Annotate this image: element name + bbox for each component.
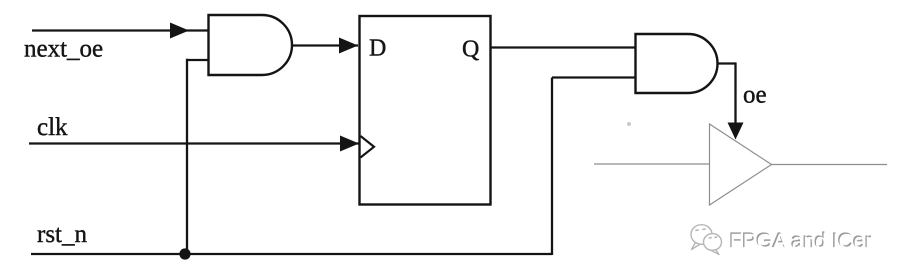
junction dot on rst_n	[179, 248, 190, 259]
svg-text:oe: oe	[743, 82, 767, 109]
wire tri-state buffer input	[594, 163, 709, 165]
scan speck	[627, 122, 631, 126]
wire rst_n	[31, 253, 552, 255]
svg-text:rst_n: rst_n	[37, 221, 88, 248]
svg-text:FPGA and ICer: FPGA and ICer	[730, 231, 872, 254]
svg-text:D: D	[369, 36, 386, 62]
d-flip-flop U2	[360, 16, 491, 205]
svg-text:next_oe: next_oe	[24, 36, 103, 63]
and-gate U3	[636, 34, 718, 93]
wire tri-state buffer output	[772, 164, 888, 166]
clock edge chevron	[361, 136, 375, 158]
svg-text:clk: clk	[37, 114, 68, 141]
wire next_oe input	[32, 23, 208, 39]
wire rst_n to U3 lower input	[552, 78, 636, 256]
wire Q output to U3 upper input	[491, 46, 636, 48]
wire gate1 lower input from rst_n net	[187, 59, 208, 254]
wire U1 output to D input	[292, 38, 358, 54]
wire U3 output to oe arrow	[718, 62, 744, 139]
svg-text:Q: Q	[462, 37, 479, 63]
wire clk input	[29, 136, 359, 152]
watermark logo (chat bubbles)	[691, 225, 722, 255]
watermark text FPGA and ICer	[729, 229, 873, 253]
and-gate U1	[209, 15, 293, 75]
tri-state buffer U4	[710, 124, 772, 205]
